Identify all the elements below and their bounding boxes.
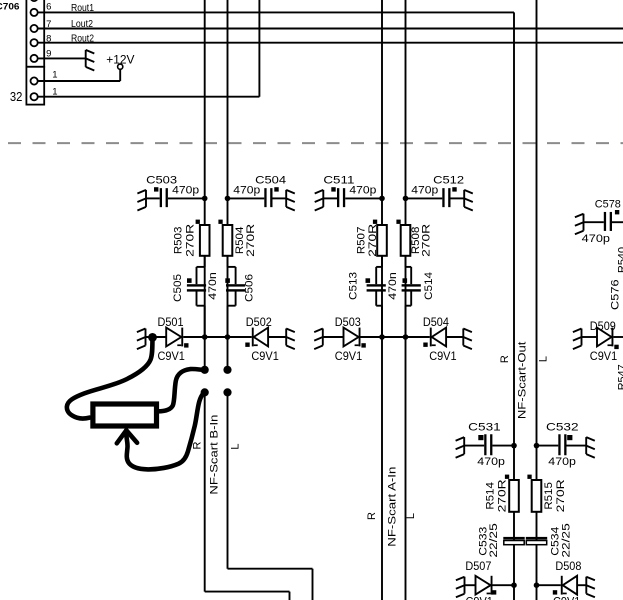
svg-text:C576: C576: [610, 279, 622, 310]
svg-text:470p: 470p: [477, 456, 505, 468]
svg-text:C9V1: C9V1: [158, 351, 185, 363]
svg-text:8: 8: [46, 34, 51, 45]
svg-text:C9V1: C9V1: [590, 351, 617, 363]
svg-text:C706: C706: [0, 1, 20, 12]
svg-text:C9V1: C9V1: [466, 597, 493, 600]
svg-text:R514: R514: [485, 482, 497, 510]
svg-text:NF-Scart A-In: NF-Scart A-In: [386, 467, 398, 547]
svg-text:22/25: 22/25: [488, 523, 500, 557]
svg-text:470p: 470p: [233, 184, 260, 196]
svg-text:R547: R547: [617, 364, 623, 390]
svg-text:270R: 270R: [184, 224, 196, 257]
svg-text:C506: C506: [244, 274, 256, 302]
svg-text:R503: R503: [172, 227, 184, 255]
svg-text:C9V1: C9V1: [553, 597, 580, 600]
svg-text:7: 7: [46, 19, 51, 30]
svg-text:R: R: [366, 512, 378, 520]
svg-text:C514: C514: [423, 272, 435, 300]
svg-text:270R: 270R: [245, 224, 257, 257]
svg-text:R507: R507: [356, 227, 368, 255]
svg-text:R540: R540: [617, 247, 623, 273]
svg-text:270R: 270R: [555, 479, 567, 512]
svg-text:D502: D502: [246, 317, 272, 329]
svg-text:R: R: [192, 441, 204, 449]
svg-text:D504: D504: [423, 317, 450, 329]
svg-text:NF-Scart-Out: NF-Scart-Out: [517, 342, 529, 420]
svg-text:9: 9: [46, 49, 51, 60]
svg-text:470p: 470p: [172, 184, 199, 196]
svg-text:270R: 270R: [367, 224, 379, 257]
svg-text:470p: 470p: [582, 233, 610, 245]
svg-text:L: L: [538, 356, 550, 362]
svg-text:C513: C513: [347, 272, 359, 300]
svg-text:C505: C505: [172, 274, 184, 302]
svg-text:NF-Scart B-In: NF-Scart B-In: [208, 415, 220, 495]
svg-text:C9V1: C9V1: [335, 351, 362, 363]
svg-text:R515: R515: [543, 482, 555, 510]
svg-text:C531: C531: [468, 422, 501, 434]
svg-text:D507: D507: [465, 561, 491, 573]
svg-text:1: 1: [52, 87, 57, 98]
svg-text:L: L: [405, 513, 417, 519]
svg-text:C9V1: C9V1: [429, 351, 456, 363]
svg-text:270R: 270R: [421, 224, 433, 257]
svg-text:270R: 270R: [497, 479, 509, 512]
svg-text:C532: C532: [546, 422, 579, 434]
svg-text:470n: 470n: [387, 272, 399, 300]
svg-text:D501: D501: [158, 317, 184, 329]
svg-text:6: 6: [46, 1, 51, 12]
svg-text:470p: 470p: [548, 456, 576, 468]
svg-text:C578: C578: [595, 199, 621, 211]
svg-text:32: 32: [10, 90, 23, 104]
svg-text:R: R: [499, 355, 511, 363]
svg-text:+12V: +12V: [106, 53, 134, 67]
svg-text:Lout2: Lout2: [71, 18, 93, 30]
svg-text:Rout2: Rout2: [71, 32, 94, 44]
svg-text:D508: D508: [555, 561, 581, 573]
svg-text:D509: D509: [590, 321, 616, 333]
svg-text:Rout1: Rout1: [71, 2, 94, 14]
svg-text:L: L: [229, 444, 241, 450]
svg-text:470n: 470n: [207, 272, 219, 300]
svg-text:470p: 470p: [411, 184, 438, 196]
svg-text:1: 1: [52, 70, 57, 81]
svg-text:C9V1: C9V1: [251, 351, 278, 363]
svg-text:22/25: 22/25: [560, 523, 572, 557]
svg-text:470p: 470p: [349, 184, 376, 196]
svg-text:D503: D503: [335, 317, 361, 329]
